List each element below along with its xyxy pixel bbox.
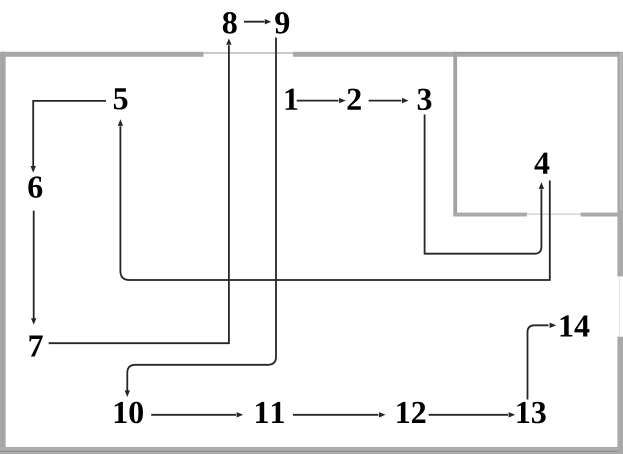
arrowhead into 6 [31, 166, 36, 173]
wire 3 to 4 [425, 115, 542, 254]
wire 4 to 5 [120, 126, 549, 280]
node 1 [286, 89, 298, 110]
inner room top wall darker edge [453, 52, 620, 53]
arrowhead into 7 [31, 318, 36, 325]
wall top-right segment [293, 52, 623, 57]
wall bottom darker stripe [0, 451, 623, 452]
node 2 [348, 89, 361, 110]
arrowhead into 3 [402, 98, 409, 103]
node 8 [223, 12, 237, 34]
arrow 10 to 11 [151, 414, 236, 416]
arrow 12 to 13 [429, 414, 508, 416]
arrowhead into 13 [509, 412, 516, 417]
wall top doorway threshold [204, 52, 293, 54]
arrowhead into 8 [226, 38, 231, 44]
arrow 8 to 9 [244, 21, 265, 23]
wall top-left segment [2, 52, 204, 57]
arrowhead into 5 [118, 119, 123, 126]
inner room bottom wall left segment [453, 213, 527, 217]
arrow 11 to 12 [293, 414, 379, 416]
arrow 1 to 2 [297, 100, 339, 102]
arrow 2 to 3 [369, 100, 402, 102]
node 7 [29, 336, 42, 357]
node 14 [561, 315, 590, 336]
wall left darker edge [1, 52, 4, 454]
wall left [0, 52, 6, 454]
node 9 [275, 12, 289, 34]
arrowhead into 9 [265, 19, 271, 24]
inner room doorway threshold [527, 213, 581, 214]
wire 5 to 6 [33, 101, 106, 167]
wall right inner-room divider line [620, 52, 623, 211]
node 11 [256, 402, 284, 423]
node 6 [28, 176, 42, 198]
wall right doorway threshold [619, 276, 620, 336]
wall right upper segment [617, 52, 623, 277]
arrowhead into 2 [339, 98, 346, 103]
arrowhead into 10 [125, 390, 130, 397]
node 3 [418, 89, 432, 111]
node 4 [534, 153, 549, 174]
wall right lower segment [617, 337, 623, 454]
arrowhead into 11 [237, 412, 244, 417]
node 13 [517, 402, 545, 424]
wire 7 to 8 [49, 45, 229, 343]
wire 6 to 7 [33, 211, 35, 320]
inner room left wall [453, 52, 457, 217]
node 12 [397, 402, 425, 423]
arrowhead into 4 [539, 182, 544, 189]
node 10 [115, 402, 143, 424]
arrowhead into 12 [379, 412, 386, 417]
wall bottom [0, 447, 623, 454]
inner room bottom wall right segment [581, 213, 620, 217]
node 5 [114, 88, 128, 109]
wire 13 to 14 [528, 325, 549, 399]
wire 9 to 10 [127, 38, 276, 392]
arrowhead into 14 [550, 323, 557, 328]
